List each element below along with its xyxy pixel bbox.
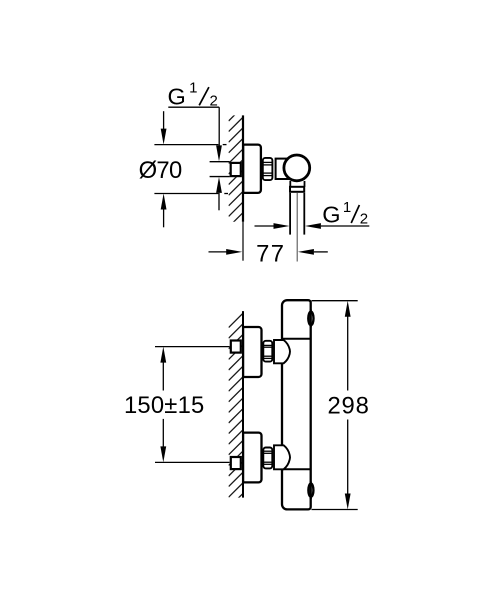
svg-text:2: 2 <box>210 93 218 110</box>
mixer body (front bar) <box>282 300 311 509</box>
svg-text:G: G <box>322 201 340 227</box>
svg-text:77: 77 <box>256 240 285 267</box>
svg-text:G: G <box>168 83 186 109</box>
svg-text:1: 1 <box>189 80 197 97</box>
wall face line (top view) <box>242 115 244 221</box>
supply thread extension lines (G 1/2 in wall) <box>210 161 230 163</box>
dimension 150±15 line and arrows <box>160 347 166 363</box>
neck below circle <box>290 181 304 187</box>
dimension G 1/2 (top label) leader <box>168 107 219 146</box>
upper supply extension line (150 dim) <box>155 346 230 348</box>
wall hatching (top view) <box>229 106 244 237</box>
lower supply extension line (150 dim) <box>155 461 230 463</box>
body step line (upper) <box>282 338 310 340</box>
svg-text:Ø70: Ø70 <box>139 157 182 184</box>
upper escutcheon <box>243 327 261 377</box>
svg-text:150±15: 150±15 <box>124 392 204 419</box>
escutcheon Ø70 (top view) <box>243 145 261 193</box>
upper in-wall square fitting <box>231 341 241 353</box>
side boss ellipse (upper) <box>308 312 313 325</box>
G 1/2 bottom arrow up <box>216 177 222 193</box>
lower inlet bell <box>274 445 290 469</box>
upper hex nut <box>263 341 273 362</box>
Ø70 dimension arrows <box>163 111 165 129</box>
dimension Ø70 extension lines <box>154 145 228 194</box>
down pipe (shower hose connection) <box>290 193 304 235</box>
lower escutcheon <box>243 433 261 483</box>
hex union nut (top view) <box>262 158 273 180</box>
in-wall square union fitting (top view) <box>231 163 241 176</box>
collar nut on down pipe <box>290 187 304 192</box>
G 1/2 top arrow down <box>216 145 222 161</box>
wall face line (bottom view) <box>242 311 244 498</box>
svg-text:298: 298 <box>328 393 370 420</box>
lower hex nut <box>263 448 273 469</box>
dimension 77 <box>209 251 228 253</box>
dimension 298 extension lines <box>312 300 358 302</box>
svg-text:2: 2 <box>360 211 368 228</box>
outlet elbow circle (top view) <box>284 155 310 181</box>
wall hatching (bottom view) <box>229 313 244 518</box>
upper inlet bell <box>274 340 290 363</box>
valve body (top view) <box>276 159 295 179</box>
side boss ellipse (lower) <box>308 484 313 497</box>
lower in-wall square fitting <box>231 457 241 469</box>
svg-text:1: 1 <box>343 199 351 216</box>
body step line (lower) <box>282 468 310 470</box>
wall face extension line down to 77 dimension <box>242 222 244 261</box>
dimension 298 line and arrows <box>345 301 351 317</box>
pipe centre line / 77 extension <box>296 193 298 262</box>
dimension G 1/2 (right label) <box>255 225 275 227</box>
